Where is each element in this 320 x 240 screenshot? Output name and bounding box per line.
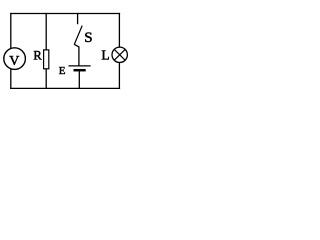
- svg-text:E: E: [59, 65, 66, 77]
- svg-text:R: R: [33, 49, 42, 63]
- wire : resistor branch lower: [45, 69, 47, 89]
- wire : right rail upper segment: [118, 13, 120, 48]
- wire : top rail: [10, 13, 120, 15]
- wire : left rail lower segment: [10, 69, 12, 89]
- lamp L1 cross stroke NE-SW: [114, 49, 125, 60]
- svg-text:V: V: [9, 54, 19, 69]
- svg-text:S: S: [84, 30, 92, 46]
- wire : right rail lower segment: [118, 63, 120, 89]
- switch S1 blade (open): [74, 26, 82, 45]
- wire : resistor branch upper: [45, 13, 47, 50]
- voltmeter V1 circle: [4, 48, 26, 70]
- wire : bottom rail: [10, 87, 120, 89]
- battery E1 short plate (-): [74, 69, 86, 72]
- wire : battery to bottom rail: [78, 71, 80, 89]
- battery E1 long plate (+): [69, 65, 91, 67]
- resistor R1 body: [44, 50, 49, 69]
- wire : switch to battery: [74, 44, 79, 66]
- wire : left rail upper segment: [10, 13, 12, 49]
- wire : switch top stub: [77, 13, 79, 24]
- svg-text:L: L: [101, 48, 109, 63]
- lamp L1 cross stroke NW-SE: [114, 49, 125, 60]
- lamp L1 circle: [112, 47, 127, 62]
